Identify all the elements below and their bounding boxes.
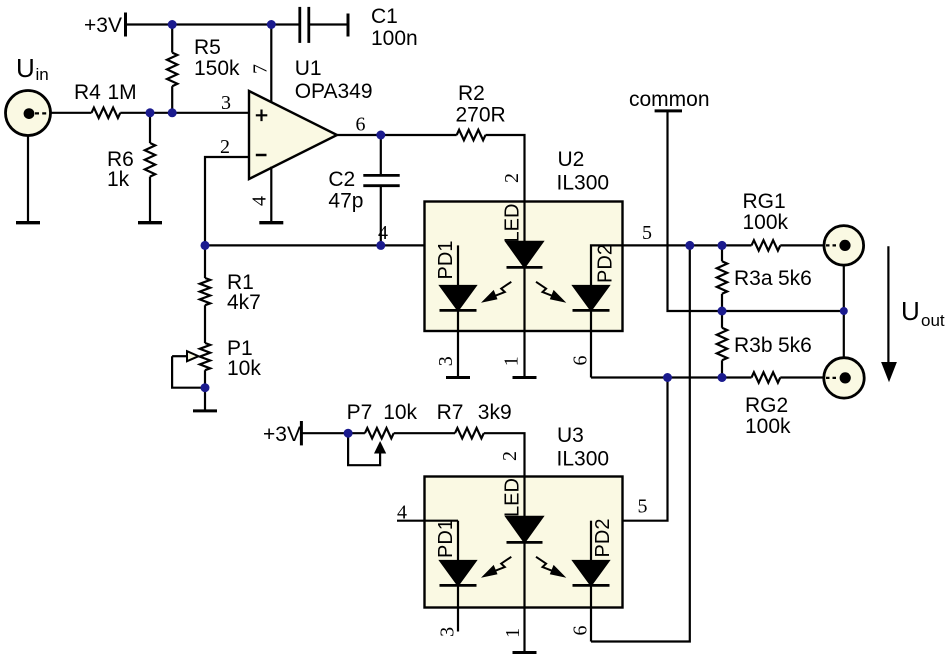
svg-text:100k: 100k <box>743 211 789 234</box>
svg-text:5: 5 <box>638 496 648 518</box>
svg-text:C2: C2 <box>328 168 355 191</box>
svg-text:4: 4 <box>378 222 388 244</box>
svg-text:10k: 10k <box>383 401 417 424</box>
resistor R3a <box>717 261 727 293</box>
svg-text:4: 4 <box>397 502 407 524</box>
wire input connector to ground <box>27 136 29 223</box>
U2 photodiode PD1 <box>441 286 476 310</box>
svg-text:5k6: 5k6 <box>778 267 812 290</box>
svg-text:6: 6 <box>569 626 591 636</box>
svg-text:U1: U1 <box>295 57 322 80</box>
resistor R3b <box>717 328 727 360</box>
svg-text:+3V: +3V <box>84 14 122 37</box>
svg-text:4k7: 4k7 <box>227 291 261 314</box>
U2 pin 1 terminal bar <box>513 376 537 379</box>
ground input <box>16 221 40 224</box>
wire R6 to ground <box>149 177 151 223</box>
wire RG2 to output connector 2 <box>780 376 824 378</box>
node junction out/C2 <box>376 131 385 140</box>
wire RG1 to output connector 1 <box>780 244 824 246</box>
wire op-amp pin 4 to ground <box>270 167 272 223</box>
svg-text:U: U <box>16 53 35 83</box>
svg-text:LED: LED <box>502 478 524 517</box>
power +3V tick (bottom) <box>300 421 303 445</box>
U3 pin 4 stub <box>397 520 458 522</box>
capacitor C2 <box>363 175 399 185</box>
U2 light arrow left <box>481 282 511 303</box>
U2 PD1 cathode wire to pin 3 <box>457 310 459 377</box>
node junction input/R6 <box>146 108 155 117</box>
svg-text:2: 2 <box>220 136 230 158</box>
svg-text:R5: R5 <box>194 36 221 59</box>
svg-text:common: common <box>629 88 710 111</box>
op-amp U1 <box>249 91 337 179</box>
svg-text:5: 5 <box>642 222 652 244</box>
wire +3V top rail <box>126 23 300 25</box>
wire R1 to P1 <box>204 305 206 343</box>
node junction 5/rail <box>685 241 694 250</box>
node junction common/shield <box>840 307 848 315</box>
potentiometer P7 <box>365 428 394 438</box>
svg-text:C1: C1 <box>371 5 398 28</box>
U2 PD2 cathode wire pin 6 <box>590 310 592 377</box>
svg-text:R3a: R3a <box>734 267 773 290</box>
svg-text:R7: R7 <box>437 401 464 424</box>
capacitor C1 <box>300 7 309 43</box>
U3 PD2 anode wire (pin 5 inside) <box>590 521 592 561</box>
node junction pin6row/U3pin5 <box>663 373 672 382</box>
U2 PD2 anode wire (pin 5 inside) <box>591 245 623 286</box>
wire U2 pin6 node down to U3 pin 5 <box>591 378 668 521</box>
svg-text:100k: 100k <box>745 415 791 438</box>
svg-text:1k: 1k <box>107 168 130 191</box>
svg-text:3k9: 3k9 <box>478 401 512 424</box>
C1 open terminal tick <box>347 14 350 37</box>
connector output 2 <box>824 358 864 398</box>
connector output 1 <box>824 226 864 266</box>
svg-text:150k: 150k <box>194 57 240 80</box>
U2 PD1 anode wire (pin 4 inside) <box>457 245 459 286</box>
node junction feedback/C2 <box>376 241 385 250</box>
P7 wiper arrow <box>348 433 380 465</box>
optocoupler U3 body <box>425 477 623 608</box>
svg-text:1M: 1M <box>108 81 137 104</box>
U3 LED cathode wire to pin 1 <box>523 542 525 652</box>
svg-text:RG1: RG1 <box>743 190 786 213</box>
svg-text:P7: P7 <box>347 401 373 424</box>
svg-text:6: 6 <box>356 114 366 136</box>
svg-text:270R: 270R <box>456 104 506 127</box>
U2 pin 3 terminal bar <box>446 376 470 379</box>
U2 LED diode <box>507 242 543 267</box>
node junction 5/R3a <box>718 241 727 250</box>
U3 LED diode <box>507 517 543 542</box>
resistor R6 <box>145 143 155 177</box>
svg-text:R4: R4 <box>74 81 101 104</box>
svg-text:LED: LED <box>502 204 524 243</box>
svg-text:PD1: PD1 <box>435 241 457 280</box>
svg-text:R2: R2 <box>458 82 485 105</box>
wire P1 wiper to bottom <box>172 356 205 388</box>
resistor R2 <box>457 130 486 140</box>
wire input to R4 <box>51 112 92 114</box>
wire R2 to U2 pin 2 <box>486 135 525 202</box>
wire R7 to U3 pin 2 <box>484 433 525 476</box>
node junction pin6row/R3b <box>718 373 727 382</box>
U2 photodiode PD2 <box>574 286 609 310</box>
svg-text:3: 3 <box>435 356 457 366</box>
Uout arrow <box>887 246 889 362</box>
U3 PD1 cathode wire pin 3 <box>457 585 459 631</box>
node junction +3V/R5 <box>168 20 177 29</box>
node junction +3V/pin7 <box>267 20 276 29</box>
op-amp - input symbol <box>256 154 267 157</box>
resistor R4 <box>92 108 121 118</box>
wire +3V to P7 <box>301 432 365 434</box>
power +3V tick (top left) <box>124 13 127 37</box>
wire C2 top <box>380 135 382 174</box>
wire R1 top <box>204 245 206 278</box>
svg-text:4: 4 <box>249 196 271 206</box>
wire R3b bottom <box>721 360 723 377</box>
svg-text:PD2: PD2 <box>595 244 617 283</box>
U3 LED anode wire (pin 2 inside) <box>523 477 525 517</box>
svg-text:IL300: IL300 <box>557 448 610 471</box>
wire op-amp pin 7 <box>270 25 272 104</box>
node junction P1 wiper <box>201 383 210 392</box>
wire P7 to R7 <box>394 432 455 434</box>
U2 LED cathode wire to pin 1 <box>523 267 525 377</box>
svg-text:in: in <box>36 65 49 84</box>
svg-text:U2: U2 <box>558 148 585 171</box>
common net tick <box>655 109 682 112</box>
svg-text:PD1: PD1 <box>435 519 457 558</box>
wire R5 top <box>171 25 173 53</box>
ground R6 <box>138 221 162 224</box>
svg-text:10k: 10k <box>227 357 261 380</box>
svg-text:1: 1 <box>501 356 523 366</box>
U2 LED anode wire (pin 2 inside) <box>523 202 525 242</box>
svg-text:2: 2 <box>501 173 523 183</box>
svg-text:IL300: IL300 <box>557 172 610 195</box>
U3 photodiode PD1 <box>441 561 476 585</box>
wire R3a top <box>721 245 723 261</box>
P1 wiper arrow <box>172 355 187 357</box>
wire R6 top <box>149 113 151 143</box>
optocoupler U2 body <box>425 202 623 332</box>
resistor RG2 <box>752 372 781 382</box>
wire common rail <box>668 111 844 311</box>
wire op-amp pin 2 <box>205 157 249 245</box>
wire R4 to op-amp pin 3 <box>120 112 249 114</box>
svg-text:+3V: +3V <box>263 423 301 446</box>
svg-text:47p: 47p <box>328 190 363 213</box>
wire R5 bottom <box>171 86 173 113</box>
resistor R7 <box>455 428 484 438</box>
wire R3b top <box>721 311 723 328</box>
ground op-amp pin 4 <box>259 221 283 224</box>
svg-text:100n: 100n <box>371 27 418 50</box>
resistor R1 <box>200 278 210 305</box>
svg-text:6: 6 <box>569 356 591 366</box>
node junction R3a/R3b common <box>718 307 727 316</box>
svg-text:PD2: PD2 <box>592 519 614 558</box>
svg-text:1: 1 <box>502 628 524 638</box>
wire node 5 row (U2 pin 5 to RG1) <box>623 244 752 246</box>
wire output connector 1 shield to common <box>843 265 845 311</box>
ground P1 <box>193 409 217 412</box>
U2 light arrow right <box>536 282 566 303</box>
svg-text:3: 3 <box>221 92 231 114</box>
node junction P7 wiper <box>344 429 353 438</box>
resistor RG1 <box>752 240 781 250</box>
op-amp + input symbol <box>256 110 267 122</box>
U3 photodiode PD2 <box>574 561 609 585</box>
svg-text:U: U <box>901 296 920 326</box>
svg-text:2: 2 <box>499 451 521 461</box>
svg-text:out: out <box>921 311 945 330</box>
wire P1 to ground <box>204 370 206 411</box>
U3 PD1 anode wire <box>457 521 459 561</box>
wire node5 rail down to U3 pin 6 <box>591 245 690 641</box>
svg-text:5k6: 5k6 <box>778 334 812 357</box>
U3 PD2 cathode wire pin 6 <box>590 585 592 641</box>
node junction input/R5 <box>168 108 177 117</box>
svg-text:3: 3 <box>436 627 458 637</box>
U3 pin 1 terminal bar <box>513 651 537 654</box>
resistor R5 <box>167 53 177 87</box>
node junction feedback/pin2 <box>201 241 210 250</box>
wire feedback node to U2 pin 4 <box>205 244 458 246</box>
svg-text:R3b: R3b <box>734 334 773 357</box>
wire R3a bottom <box>721 294 723 311</box>
svg-text:U3: U3 <box>557 424 584 447</box>
svg-text:RG2: RG2 <box>745 394 788 417</box>
svg-text:7: 7 <box>250 64 272 74</box>
connector input Uin <box>6 91 51 136</box>
potentiometer P1 <box>200 343 210 370</box>
U3 light arrow right <box>536 557 566 578</box>
wire common to output connector 2 shield <box>843 311 845 358</box>
wire U2 pin 6 row to RG2 <box>591 376 752 378</box>
svg-text:OPA349: OPA349 <box>295 80 373 103</box>
wire C1 to open terminal <box>309 23 348 25</box>
wire C2 bottom <box>380 187 382 245</box>
wire op-amp output pin 6 <box>337 134 457 136</box>
U3 light arrow left <box>481 557 511 578</box>
